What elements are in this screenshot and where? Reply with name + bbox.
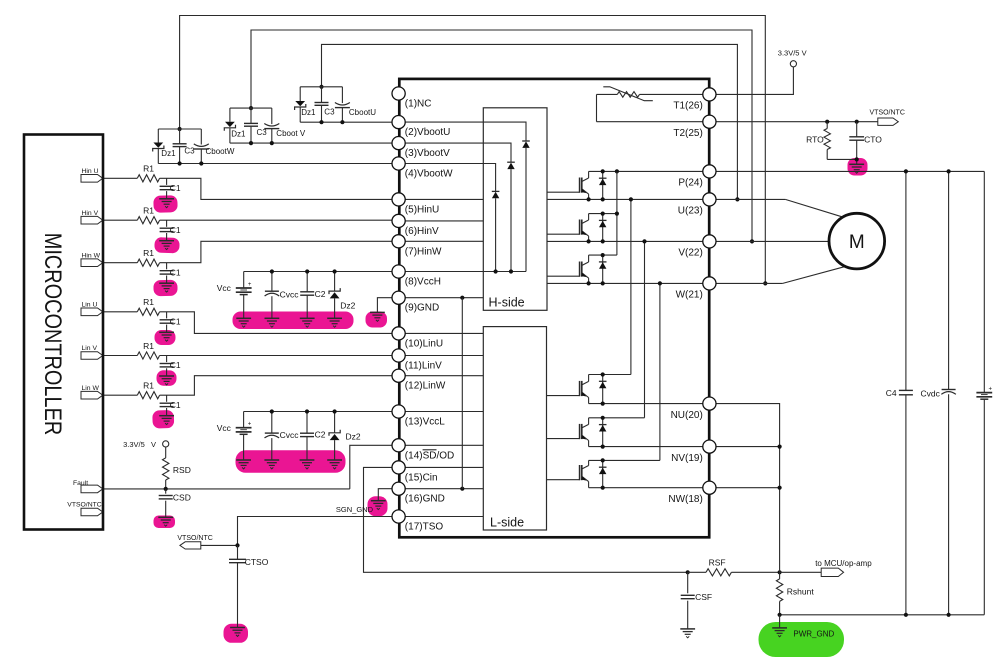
wire pin9 GND to left ground [377, 298, 392, 313]
wire NW collector rail [589, 459, 660, 461]
pin U(23) [703, 193, 716, 206]
wire pin13 VccL into box [405, 411, 483, 413]
capacitor C3 (U group) [321, 87, 323, 102]
wire U phase to NU collector [630, 199, 632, 374]
freewheel diode LS W [602, 460, 604, 487]
wire Lin V to pin [160, 355, 392, 357]
microcontroller box [24, 135, 103, 530]
wire V collector rail [589, 213, 617, 215]
freewheel diode HS U [602, 171, 604, 199]
pin (7)HinW [392, 235, 405, 248]
capacitor C3 (V group) [250, 108, 252, 123]
resistor R1 (Hin W) [137, 259, 159, 266]
output tag to MCU/op-amp [821, 568, 843, 576]
MCU output tag Hin V [81, 216, 103, 224]
bootstrap diode V [507, 161, 515, 163]
svg-text:R1: R1 [143, 341, 154, 351]
junction CbootW top [178, 127, 182, 131]
junction NW [778, 486, 782, 490]
svg-text:3.3V/5 V: 3.3V/5 V [778, 48, 807, 57]
wire gate LS U [547, 395, 580, 397]
junction V diode bottom [601, 239, 605, 243]
junction diode V VccH [509, 269, 513, 273]
svg-text:(11)LinV: (11)LinV [405, 361, 442, 372]
MCU output tag Hin U [81, 175, 103, 183]
junction GND bus top [460, 296, 464, 300]
pin T1(26) [703, 88, 716, 101]
pin (10)LinU [392, 327, 405, 340]
wire gate HS W [547, 275, 580, 277]
freewheel diode LS U [602, 375, 604, 404]
battery Vcc (VccH) [243, 272, 245, 289]
junction C4 top [904, 169, 908, 173]
svg-text:CTSO: CTSO [245, 557, 269, 567]
highlight over CSD ground [154, 516, 176, 529]
svg-text:(10)LinU: (10)LinU [405, 338, 443, 349]
resistor R1 (Lin W) [137, 392, 159, 399]
junction on U line [735, 197, 739, 201]
wire Lin V from MCU [103, 355, 137, 357]
svg-text:C2: C2 [315, 289, 326, 299]
pin W(21) [703, 277, 716, 290]
pin V(22) [703, 235, 716, 248]
svg-text:Hin W: Hin W [82, 252, 101, 259]
wire pin5 HinU into box [405, 198, 483, 200]
svg-text:(3)VbootV: (3)VbootV [405, 148, 450, 159]
svg-text:+: + [248, 282, 252, 288]
svg-text:R1: R1 [143, 206, 154, 216]
svg-text:Rshunt: Rshunt [787, 586, 815, 596]
wire W collector rail [589, 254, 617, 256]
wire NV out [716, 446, 780, 448]
bootstrap diode W [492, 190, 500, 192]
resistor R1 (Hin U) [137, 175, 159, 182]
junction NU diode top [601, 372, 605, 376]
ground C2 VccL [300, 459, 315, 461]
ground for C1 (Hin W) [159, 282, 174, 284]
capacitor Cvcc (VccL) [271, 412, 273, 434]
wire CbootW top to W phase [180, 16, 766, 284]
transistor Q5 (LS V IGBT) [579, 424, 581, 439]
wire shunt to PWR_GND [779, 615, 781, 628]
zener Dz2 (VccH) [334, 272, 336, 292]
wire V phase out [716, 240, 829, 242]
capacitor C3 (W group) [179, 129, 181, 144]
junction C2 VccH [305, 269, 309, 273]
ground CSD [158, 516, 173, 518]
highlight over C1 ground (Lin W) [152, 410, 174, 429]
svg-text:RSD: RSD [173, 465, 191, 475]
junction CbootU bottom [340, 120, 344, 124]
wire T1 internal [597, 93, 618, 95]
wire Hin U from MCU [103, 177, 137, 179]
wire T1 to supply [716, 67, 794, 95]
highlight over C1 ground (Hin W) [153, 280, 177, 296]
wire Hin W from MCU [103, 262, 137, 264]
capacitor CTSO [237, 545, 239, 559]
svg-text:PWR_GND: PWR_GND [793, 630, 834, 639]
junction diode W VccH [494, 269, 498, 273]
ground battery VccL [236, 459, 251, 461]
junction C2 VccL [305, 409, 309, 413]
svg-text:(6)HinV: (6)HinV [405, 226, 439, 237]
pin (9)GND [392, 291, 405, 304]
capacitor C2 (VccL) [306, 412, 308, 434]
svg-text:(13)VccL: (13)VccL [405, 417, 445, 428]
wire VccH rail to pin 8 [244, 271, 392, 273]
MCU output tag VTSO/NTC [81, 508, 103, 516]
junction W emitter stub [587, 281, 591, 285]
ground CTSO [230, 627, 245, 629]
battery Vdc [983, 171, 985, 392]
svg-text:W(21): W(21) [676, 290, 703, 301]
svg-text:CbootW: CbootW [206, 147, 235, 156]
zener Dz1 (V group) [229, 108, 231, 122]
svg-text:R1: R1 [143, 164, 154, 174]
svg-text:(7)HinW: (7)HinW [405, 246, 442, 257]
svg-text:NU(20): NU(20) [671, 410, 703, 421]
svg-text:T2(25): T2(25) [673, 128, 702, 139]
svg-text:CTO: CTO [864, 135, 882, 145]
junction on W line [763, 281, 767, 285]
svg-text:C1: C1 [170, 225, 181, 235]
L-side driver box [483, 327, 546, 530]
wire to opamp tag [780, 571, 822, 573]
pin (16)GND [392, 482, 405, 495]
svg-text:(12)LinW: (12)LinW [405, 381, 446, 392]
pin (12)LinW [392, 369, 405, 382]
svg-text:C2: C2 [315, 429, 326, 439]
wire P rail / U collector [589, 170, 703, 172]
supply circle 3.3V/5V right [790, 61, 796, 67]
freewheel diode HS W [602, 255, 604, 283]
wire NV collector rail [589, 417, 645, 419]
svg-text:C1: C1 [170, 316, 181, 326]
wire pin4 to bootstrap diode W [405, 164, 495, 192]
pin P(24) [703, 165, 716, 178]
ground PWR_GND [772, 627, 787, 629]
wire P feed vertical [616, 171, 618, 255]
wire W phase out [716, 282, 783, 284]
svg-text:C1: C1 [170, 183, 181, 193]
capacitor C1 (Lin U) [166, 312, 168, 319]
pin NW(18) [703, 481, 716, 494]
output tag VTSO/NTC right [878, 118, 899, 125]
wire pin15 Cin into box [405, 466, 483, 468]
wire NW emitter rail [589, 487, 703, 489]
highlight over VccL decoupling grounds [236, 450, 346, 473]
ground Cvcc VccH [265, 317, 280, 319]
ground CTO [849, 163, 864, 165]
ground Cvcc VccL [264, 459, 279, 461]
wire pin16 GND to SGN_GND [378, 489, 392, 501]
svg-text:(5)HinU: (5)HinU [405, 204, 439, 215]
wire VccL rail to pin 13 [244, 411, 392, 413]
svg-text:(15)Cin: (15)Cin [405, 472, 438, 483]
wire gate LS V [547, 438, 580, 440]
junction NW diode top [601, 458, 605, 462]
bootstrap diode U [522, 140, 530, 142]
zener Dz2 (VccL) [334, 412, 336, 433]
wire U slant to motor [785, 199, 842, 216]
highlight over CTO ground [848, 158, 868, 176]
pin (1)NC [392, 87, 405, 100]
junction CbootU top [319, 85, 323, 89]
svg-text:Dz1: Dz1 [301, 108, 316, 117]
highlight over C1 ground (Hin U) [153, 195, 178, 213]
wire pin3 to bootstrap diode V [405, 143, 511, 162]
wire pin10 LinU into box [405, 332, 483, 334]
junction C3 U bottom [319, 120, 323, 124]
junction NW diode bottom [601, 486, 605, 490]
capacitor C1 (Hin V) [166, 220, 168, 227]
wire T2 to VTSO [716, 121, 878, 123]
svg-text:CSF: CSF [695, 592, 712, 602]
junction CbootV bottom [270, 141, 274, 145]
svg-text:VTSO/NTC: VTSO/NTC [67, 502, 101, 509]
svg-text:Lin V: Lin V [82, 345, 98, 352]
junction RSD Fault [164, 487, 168, 491]
wire VbootU rail to pin 2 [300, 121, 392, 123]
resistor RSF [706, 569, 731, 576]
ground for C1 (Lin V) [159, 375, 174, 377]
svg-text:(14)SD/OD: (14)SD/OD [405, 450, 454, 461]
svg-text:C4: C4 [886, 388, 897, 398]
svg-text:Lin U: Lin U [82, 302, 98, 309]
ground for C1 (Lin W) [159, 415, 174, 417]
wire Hin U jog to pin [160, 178, 392, 199]
svg-text:Lin W: Lin W [82, 385, 100, 392]
wire Cin to shunt node [364, 467, 688, 572]
capacitor C1 (Hin W) [166, 263, 168, 270]
ground CSF [680, 628, 695, 630]
wire W slant to motor [783, 267, 845, 284]
MCU output tag Lin W [81, 391, 103, 399]
svg-text:VTSO/NTC: VTSO/NTC [870, 110, 905, 117]
svg-text:C1: C1 [170, 400, 181, 410]
wire CSF to RSF [688, 571, 706, 573]
wire Hin V from MCU [103, 219, 137, 221]
ground Dz2 VccL [327, 459, 342, 461]
MCU output tag Fault [81, 485, 103, 493]
input tag VTSO/NTC left [180, 542, 201, 549]
junction CbootV top [249, 106, 253, 110]
junction NV diode top [601, 416, 605, 420]
svg-text:NV(19): NV(19) [671, 453, 703, 464]
wire CbootV top to V phase [251, 30, 752, 241]
wire gate LS W [547, 479, 580, 481]
highlight over C1 ground (Hin V) [154, 237, 180, 253]
svg-text:C3: C3 [324, 107, 335, 116]
wire TSO into L-side box [405, 516, 483, 518]
wire Lin W jog to pin [160, 376, 392, 396]
wire bottom bus [780, 614, 985, 616]
freewheel diode LS V [602, 418, 604, 447]
junction V collector diode [601, 212, 605, 216]
junction V collector feed [615, 212, 619, 216]
wire W emitter rail [547, 282, 703, 284]
wire NV emitter rail [589, 446, 703, 448]
wire RTO to CTO bottom [827, 158, 857, 160]
svg-text:Dz2: Dz2 [340, 301, 355, 311]
wire pin6 HinV into box [405, 220, 483, 222]
wire pin16 GND into L-side box [405, 488, 483, 490]
svg-text:C1: C1 [170, 360, 181, 370]
capacitor CbootW [200, 129, 202, 145]
svg-text:Cvcc: Cvcc [280, 430, 300, 440]
junction RTO top [825, 120, 829, 124]
wire pin14 SD/OD into box [405, 444, 483, 446]
junction V emitter stub [587, 239, 591, 243]
wire TSO to VTSO node [201, 517, 392, 546]
wire NU collector rail [589, 374, 631, 376]
svg-text:RSF: RSF [709, 557, 726, 567]
capacitor Cvdc [948, 171, 950, 389]
MCU output tag Hin W [81, 259, 103, 267]
wire pin2 to bootstrap diode U [405, 122, 526, 141]
svg-text:R1: R1 [143, 248, 154, 258]
capacitor Cvcc (VccH) [271, 272, 273, 292]
motor M [829, 213, 885, 269]
svg-text:(4)VbootW: (4)VbootW [405, 169, 453, 180]
pin (3)VbootV [392, 137, 405, 150]
junction Dz2 VccL [333, 409, 337, 413]
pin (5)HinU [392, 193, 405, 206]
svg-text:T1(26): T1(26) [673, 101, 702, 112]
capacitor C4 [905, 171, 907, 390]
wire pin9 GND into H-side box [405, 297, 483, 299]
pin (17)TSO [392, 510, 405, 523]
wire VbootV rail to pin 3 [230, 142, 392, 144]
highlight over C1 ground (Lin U) [155, 330, 176, 345]
svg-text:M: M [849, 232, 865, 253]
junction P feed [615, 169, 619, 173]
svg-text:MICROCONTROLLER: MICROCONTROLLER [40, 233, 67, 435]
resistor R1 (Hin V) [137, 217, 159, 224]
wire pin12 LinW into box [405, 375, 483, 377]
freewheel diode HS V [602, 214, 604, 242]
svg-text:to MCU/op-amp: to MCU/op-amp [815, 559, 872, 568]
IC package border [399, 79, 709, 537]
CbootV group top rail [230, 107, 272, 109]
capacitor C1 (Lin W) [166, 395, 168, 402]
wire V emitter rail [547, 240, 703, 242]
resistor R1 (Lin V) [137, 352, 159, 359]
battery Vcc (VccL) [243, 412, 245, 428]
pin (15)Cin [392, 461, 405, 474]
svg-text:R1: R1 [143, 381, 154, 391]
junction NV diode bottom [601, 445, 605, 449]
wire Fault to SD/OD [103, 488, 350, 490]
junction diode top U [601, 169, 605, 173]
junction shunt bottom [778, 613, 782, 617]
junction GND bus bottom [460, 487, 464, 491]
wire pin7 HinW into box [405, 240, 483, 242]
resistor RTO [826, 122, 828, 129]
transistor Q3 (HS W IGBT) [579, 262, 581, 277]
wire V phase to NV collector [644, 241, 646, 417]
wire Lin W from MCU [103, 394, 137, 396]
svg-text:NW(18): NW(18) [668, 494, 702, 505]
capacitor C1 (Hin U) [166, 178, 168, 185]
svg-text:C1: C1 [170, 267, 181, 277]
junction CSF node [686, 570, 690, 574]
highlight over GND pin9 ground [366, 312, 388, 328]
svg-text:Vcc: Vcc [217, 283, 232, 293]
transistor Q4 (LS U IGBT) [579, 381, 581, 396]
junction NV [778, 445, 782, 449]
svg-text:(8)VccH: (8)VccH [405, 277, 441, 288]
svg-text:Dz2: Dz2 [346, 432, 361, 442]
zener Dz1 (W group) [157, 129, 159, 143]
pin (11)LinV [392, 349, 405, 362]
svg-text:(17)TSO: (17)TSO [405, 522, 444, 533]
wire P bus [716, 170, 984, 172]
pin (4)VbootW [392, 157, 405, 170]
svg-text:Dz1: Dz1 [161, 149, 176, 158]
pin (8)VccH [392, 265, 405, 278]
junction C3 V bottom [249, 141, 253, 145]
svg-text:V(22): V(22) [678, 248, 702, 259]
wire gate HS V [547, 233, 580, 235]
junction CTO top [855, 120, 859, 124]
svg-text:P(24): P(24) [678, 178, 702, 189]
svg-text:+: + [989, 387, 993, 393]
ground C2 VccH [300, 317, 315, 319]
svg-text:(2)VbootU: (2)VbootU [405, 127, 451, 138]
transistor Q2 (HS V IGBT) [579, 220, 581, 235]
ground pin9 GND [370, 311, 385, 313]
svg-text:VTSO/NTC: VTSO/NTC [177, 535, 212, 542]
junction CTSO [235, 543, 239, 547]
resistor RSD [165, 447, 167, 458]
wire Hin V to pin [160, 219, 392, 221]
junction C4 bottom [904, 613, 908, 617]
ground Dz2 VccH [327, 317, 342, 319]
svg-text:Vcc: Vcc [217, 423, 232, 433]
transistor Q6 (LS W IGBT) [579, 465, 581, 480]
resistor R1 (Lin U) [137, 308, 159, 315]
svg-text:Hin U: Hin U [82, 168, 99, 175]
wire VbootW rail to pin 4 [158, 163, 392, 165]
junction Cvdc top [947, 169, 951, 173]
zener Dz1 (U group) [299, 87, 301, 101]
supply circle 3.3V/5V left [163, 441, 169, 447]
svg-text:H-side: H-side [489, 295, 525, 309]
pin (13)VccL [392, 405, 405, 418]
svg-text:Cvcc: Cvcc [280, 289, 300, 299]
pin (2)VbootU [392, 116, 405, 129]
capacitor CbootV [271, 108, 273, 124]
svg-text:Cvdc: Cvdc [921, 389, 941, 399]
CbootW group top rail [158, 128, 201, 130]
wire U phase out [716, 198, 785, 200]
wire W phase to NW collector [659, 283, 661, 460]
H-side driver box [483, 108, 547, 310]
wire NU emitter rail [589, 403, 703, 405]
wire U emitter rail [547, 198, 703, 200]
junction U emitter stub [587, 197, 591, 201]
wire NU out [716, 404, 780, 573]
pin NV(19) [703, 440, 716, 453]
ground for C1 (Hin U) [159, 198, 174, 200]
junction shunt node [778, 570, 782, 574]
thermistor element [617, 92, 639, 98]
svg-text:(9)GND: (9)GND [405, 303, 439, 314]
CbootU group top rail [300, 86, 342, 88]
thermistor strike [603, 87, 653, 101]
svg-text:(1)NC: (1)NC [405, 99, 432, 110]
